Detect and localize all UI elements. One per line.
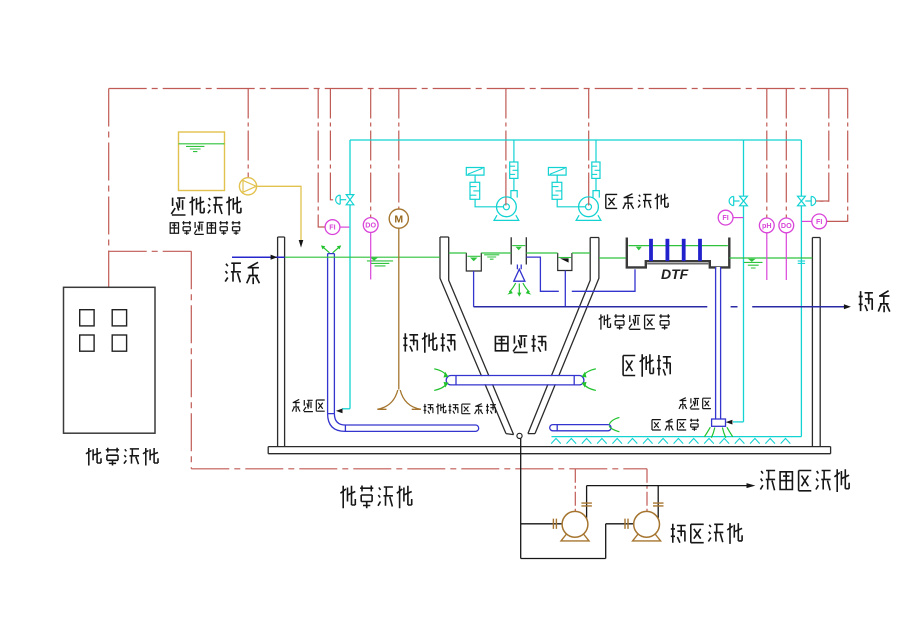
svg-text:DO: DO — [365, 220, 376, 229]
svg-text:M: M — [394, 213, 403, 225]
svg-text:FI: FI — [329, 223, 335, 232]
svg-text:DTF: DTF — [661, 266, 689, 282]
svg-text:FI: FI — [816, 217, 822, 226]
svg-text:DO: DO — [781, 221, 792, 230]
svg-text:pH: pH — [762, 221, 772, 230]
svg-text:FI: FI — [722, 213, 728, 222]
